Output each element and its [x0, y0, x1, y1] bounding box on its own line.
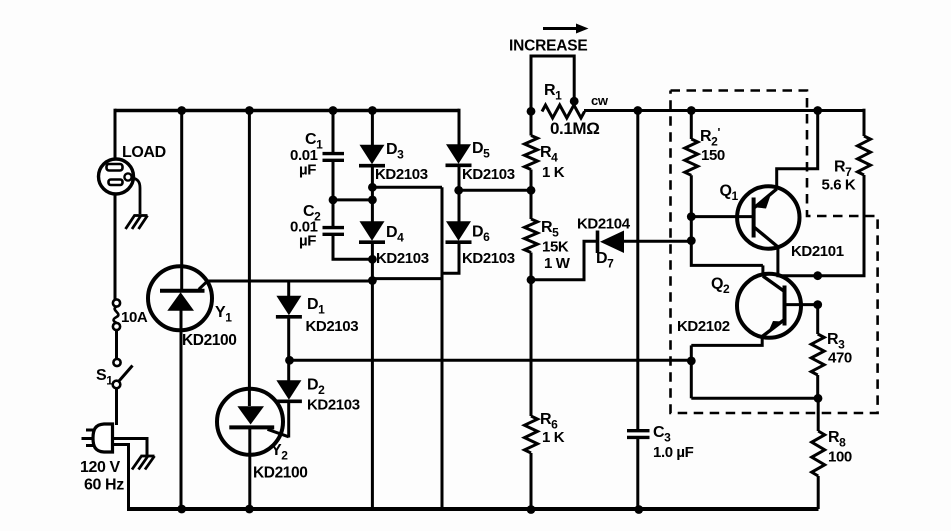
- resistor R3 470: [811, 331, 852, 375]
- fuse 10A: [113, 299, 148, 330]
- wire D7 anode to R2 column: [624, 240, 691, 243]
- wire Q1 emitter to cw rail: [777, 111, 818, 190]
- wire R7 bottom to Q1 collector node: [818, 175, 864, 276]
- plug 120V 60Hz: [80, 424, 124, 494]
- wire R5 bottom / node: [527, 253, 536, 417]
- svg-text:INCREASE: INCREASE: [509, 38, 588, 55]
- wire D5 to D6: [458, 167, 461, 222]
- svg-text:KD2101: KD2101: [791, 243, 844, 260]
- resistor R6 1K: [525, 411, 565, 453]
- wire Y1 gate to D1/D4 node: [199, 281, 373, 289]
- wire D5D6 junction to R4 bottom: [459, 189, 531, 192]
- node bottom rail junction Y2: [245, 505, 254, 514]
- capacitor C2 0.01uF: [290, 203, 344, 250]
- node cw junction Q1 emitter riser: [813, 106, 822, 115]
- node Q1 collector / R7 junction: [813, 271, 822, 280]
- wire D1 to D2: [287, 319, 290, 382]
- node top rail junction Y1: [177, 106, 186, 115]
- wire Y1 anode/cathode column: [180, 111, 184, 510]
- svg-text:KD2103: KD2103: [307, 397, 360, 414]
- svg-text:cw: cw: [591, 93, 609, 108]
- wire plug to ground: [112, 439, 147, 456]
- wire Q2 emitter to trigger node: [691, 337, 762, 346]
- diode D2 KD2103: [276, 377, 360, 414]
- resistor R5 15K 1W: [525, 219, 571, 272]
- transistor Q1 KD2101: [720, 183, 844, 261]
- svg-text:KD2102: KD2102: [677, 318, 730, 335]
- svg-text:KD2100: KD2100: [182, 332, 236, 349]
- svg-text:120 V: 120 V: [80, 459, 121, 476]
- node Q1 base tap: [687, 212, 696, 221]
- wire trigger node riser: [690, 345, 693, 398]
- resistor R7 5.6K: [822, 109, 871, 194]
- wire C1C2 junction to D3D4 column: [333, 198, 372, 201]
- wire R6 to bottom rail: [530, 453, 533, 509]
- wire Q1 collector down: [778, 247, 818, 276]
- wire Y2 gate: [268, 429, 289, 437]
- wire D3D4 junction to right column: [372, 186, 442, 189]
- node bottom rail junction Y1: [177, 505, 186, 514]
- svg-text:1 K: 1 K: [542, 164, 565, 181]
- node bottom rail junction R6: [527, 505, 536, 514]
- node D7 tap: [687, 236, 696, 245]
- svg-text:1 K: 1 K: [542, 429, 565, 446]
- svg-text:150: 150: [701, 147, 725, 164]
- node D1-D2 junction: [285, 356, 294, 365]
- arrow increase direction: [543, 24, 589, 34]
- diode D7 KD2104: [577, 216, 631, 271]
- wire C1 to C2: [332, 162, 335, 227]
- svg-text:KD2103: KD2103: [462, 250, 515, 267]
- svg-text:1.0 µF: 1.0 µF: [653, 444, 694, 461]
- wire top rail: [115, 109, 459, 113]
- transistor Q2 KD2102: [677, 274, 801, 338]
- svg-text:10A: 10A: [121, 309, 148, 326]
- resistor R2 150: [685, 111, 725, 176]
- svg-text:15K: 15K: [542, 239, 569, 256]
- wire Q2 base to right column: [785, 303, 818, 306]
- node trigger junction: [687, 357, 696, 366]
- wire R3 bottom: [816, 375, 819, 398]
- svg-text:KD2103: KD2103: [375, 166, 428, 183]
- node cw junction C3 column: [633, 106, 642, 115]
- wire R4 to R5: [530, 170, 533, 220]
- SCR Y2 KD2100: [217, 389, 307, 482]
- node R3-R8 junction: [814, 394, 823, 403]
- wire D4 cathode down to gate node: [371, 244, 374, 510]
- SCR Y1 KD2100: [148, 266, 236, 349]
- node D4 branch / Y1 gate junction: [368, 276, 377, 285]
- node D3-D4 junction: [368, 183, 377, 192]
- svg-text:KD2100: KD2100: [253, 465, 307, 482]
- svg-text:60 Hz: 60 Hz: [84, 477, 124, 494]
- wire C1 column: [332, 111, 335, 153]
- wire load branch vertical: [115, 109, 117, 425]
- node D4 cathode / C2 link: [368, 255, 377, 264]
- potentiometer R1 0.1M ohm: [527, 56, 609, 138]
- wire plug return to bottom rail: [112, 445, 129, 510]
- switch S1: [96, 359, 133, 388]
- label INCREASE: [509, 38, 588, 55]
- wire Q2 collector to R2 column: [761, 265, 764, 276]
- resistor R8 100: [812, 398, 852, 476]
- node C1C2 link at D3D4 column: [368, 196, 377, 205]
- svg-text:µF: µF: [299, 162, 316, 179]
- wire bottom edge to x442: [372, 277, 442, 280]
- wire top rail corner down to D5: [458, 109, 461, 145]
- svg-text:0.1MΩ: 0.1MΩ: [550, 119, 599, 138]
- svg-text:5.6 K: 5.6 K: [822, 177, 856, 194]
- svg-text:1 W: 1 W: [544, 255, 571, 272]
- wire C2 bottom to D4 cathode node: [333, 236, 372, 259]
- wire Y2 column: [248, 111, 251, 510]
- wire R8 to bottom rail: [817, 476, 820, 509]
- node D5-D6 junction: [454, 186, 463, 195]
- node top rail junction C1: [329, 106, 338, 115]
- wire trigger node to R3 bottom: [691, 397, 818, 400]
- node cw junction R2 column: [687, 106, 696, 115]
- wire trigger line (D1-D2 junction to Q2 node): [290, 359, 692, 362]
- svg-text:µF: µF: [299, 233, 316, 250]
- diode D3 KD2103: [359, 141, 428, 183]
- node Q2 base junction: [813, 300, 822, 309]
- svg-text:100: 100: [828, 449, 852, 466]
- diode D1 KD2103: [276, 296, 358, 335]
- wire Q1 base: [691, 215, 753, 218]
- node top rail junction D3: [368, 106, 377, 115]
- diode D6 KD2103: [446, 221, 515, 267]
- diode D5 KD2103: [446, 140, 515, 183]
- dashed enclosure (trigger module): [671, 91, 878, 414]
- svg-text:KD2103: KD2103: [376, 250, 429, 267]
- node C1-C2 junction: [329, 196, 338, 205]
- node bottom rail junction C3: [634, 505, 643, 514]
- wire right bypass column x442: [441, 187, 444, 509]
- node R4-R5 junction: [527, 186, 536, 195]
- svg-text:KD2103: KD2103: [306, 318, 359, 335]
- node top rail junction Y2: [245, 106, 254, 115]
- capacitor C1 0.01uF: [290, 131, 344, 179]
- wire bottom rail: [127, 507, 819, 511]
- svg-text:LOAD: LOAD: [122, 144, 166, 161]
- ground near load: [126, 178, 148, 230]
- diode D4 KD2103: [359, 221, 429, 267]
- ground near plug: [132, 456, 155, 470]
- wire D3 to D4: [371, 167, 374, 222]
- wire D6 cathode bend to x442: [442, 244, 459, 274]
- wire Q2 base node down to R3: [816, 305, 819, 334]
- wire cw line R1 to right: [584, 109, 864, 112]
- svg-text:KD2103: KD2103: [462, 166, 515, 183]
- wire R2 bottom to Q2 collector: [691, 175, 763, 265]
- wire D3 column: [371, 111, 374, 146]
- wire D2 cathode down: [287, 403, 290, 438]
- wire R5 node to D7: [531, 241, 597, 279]
- resistor R4 1K: [525, 111, 565, 181]
- wire D1 column top: [287, 281, 290, 296]
- wire C3 column: [636, 111, 639, 510]
- svg-text:KD2104: KD2104: [577, 216, 631, 233]
- load outlet LOAD: [99, 144, 166, 194]
- svg-text:470: 470: [828, 350, 852, 367]
- capacitor C3 1.0uF: [627, 424, 694, 461]
